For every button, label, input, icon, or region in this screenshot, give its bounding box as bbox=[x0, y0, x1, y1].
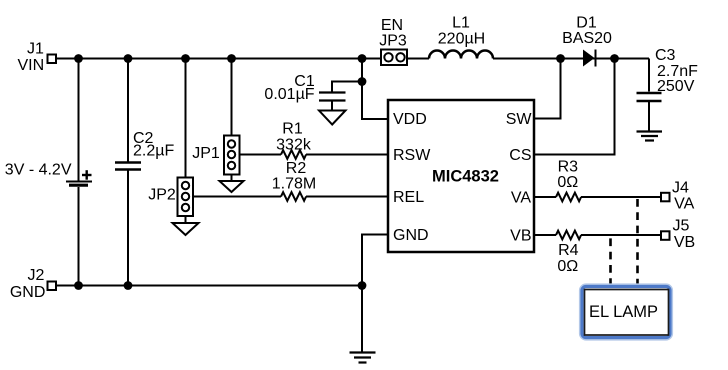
svg-text:JP1: JP1 bbox=[192, 145, 220, 162]
svg-text:VA: VA bbox=[511, 190, 531, 207]
svg-text:0Ω: 0Ω bbox=[557, 258, 578, 275]
svg-text:SW: SW bbox=[506, 111, 533, 128]
svg-text:332k: 332k bbox=[276, 137, 312, 154]
svg-text:R4: R4 bbox=[558, 242, 579, 259]
svg-text:REL: REL bbox=[393, 189, 424, 206]
svg-text:220µH: 220µH bbox=[438, 31, 485, 48]
svg-text:1.78M: 1.78M bbox=[272, 176, 316, 193]
svg-text:EN: EN bbox=[381, 17, 403, 34]
svg-text:VDD: VDD bbox=[393, 111, 427, 128]
svg-text:JP3: JP3 bbox=[379, 33, 407, 50]
svg-text:J5: J5 bbox=[673, 218, 690, 235]
svg-text:J4: J4 bbox=[672, 180, 689, 197]
svg-text:CS: CS bbox=[509, 147, 531, 164]
svg-text:R2: R2 bbox=[286, 160, 307, 177]
svg-text:3V - 4.2V: 3V - 4.2V bbox=[5, 162, 72, 179]
svg-text:0Ω: 0Ω bbox=[557, 174, 578, 191]
svg-text:J1: J1 bbox=[27, 41, 44, 58]
svg-text:RSW: RSW bbox=[393, 147, 431, 164]
svg-text:GND: GND bbox=[393, 227, 429, 244]
svg-text:R3: R3 bbox=[558, 159, 579, 176]
svg-text:GND: GND bbox=[10, 284, 46, 301]
svg-text:VB: VB bbox=[674, 234, 695, 251]
svg-text:D1: D1 bbox=[576, 14, 597, 31]
svg-text:VA: VA bbox=[674, 196, 694, 213]
svg-text:EL LAMP: EL LAMP bbox=[589, 303, 658, 321]
svg-text:BAS20: BAS20 bbox=[562, 30, 612, 47]
svg-text:JP2: JP2 bbox=[148, 187, 176, 204]
svg-text:L1: L1 bbox=[452, 15, 470, 32]
svg-text:250V: 250V bbox=[657, 78, 695, 95]
svg-text:MIC4832: MIC4832 bbox=[432, 168, 499, 186]
svg-text:VIN: VIN bbox=[17, 57, 44, 74]
svg-text:2.2µF: 2.2µF bbox=[133, 143, 174, 160]
svg-text:R1: R1 bbox=[282, 121, 303, 138]
svg-text:0.01µF: 0.01µF bbox=[264, 86, 314, 103]
svg-text:J2: J2 bbox=[28, 267, 45, 284]
svg-text:C3: C3 bbox=[655, 47, 676, 64]
svg-text:VB: VB bbox=[510, 228, 531, 245]
